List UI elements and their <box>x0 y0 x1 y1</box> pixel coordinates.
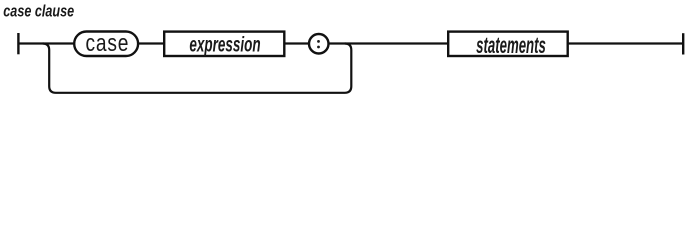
svg-text:statements: statements <box>476 32 546 58</box>
loop return wire <box>43 44 352 93</box>
main wire <box>18 42 684 44</box>
nonterminal box: statements <box>448 32 568 58</box>
terminal circle: colon <box>309 34 329 54</box>
start tick <box>17 33 19 54</box>
svg-text:expression: expression <box>189 32 260 56</box>
svg-text:case: case <box>86 29 130 57</box>
end tick <box>682 33 684 54</box>
svg-text:case clause: case clause <box>3 3 74 21</box>
terminal pill: case <box>74 29 138 57</box>
nonterminal box: expression <box>164 32 284 57</box>
title: case clause <box>3 3 74 21</box>
